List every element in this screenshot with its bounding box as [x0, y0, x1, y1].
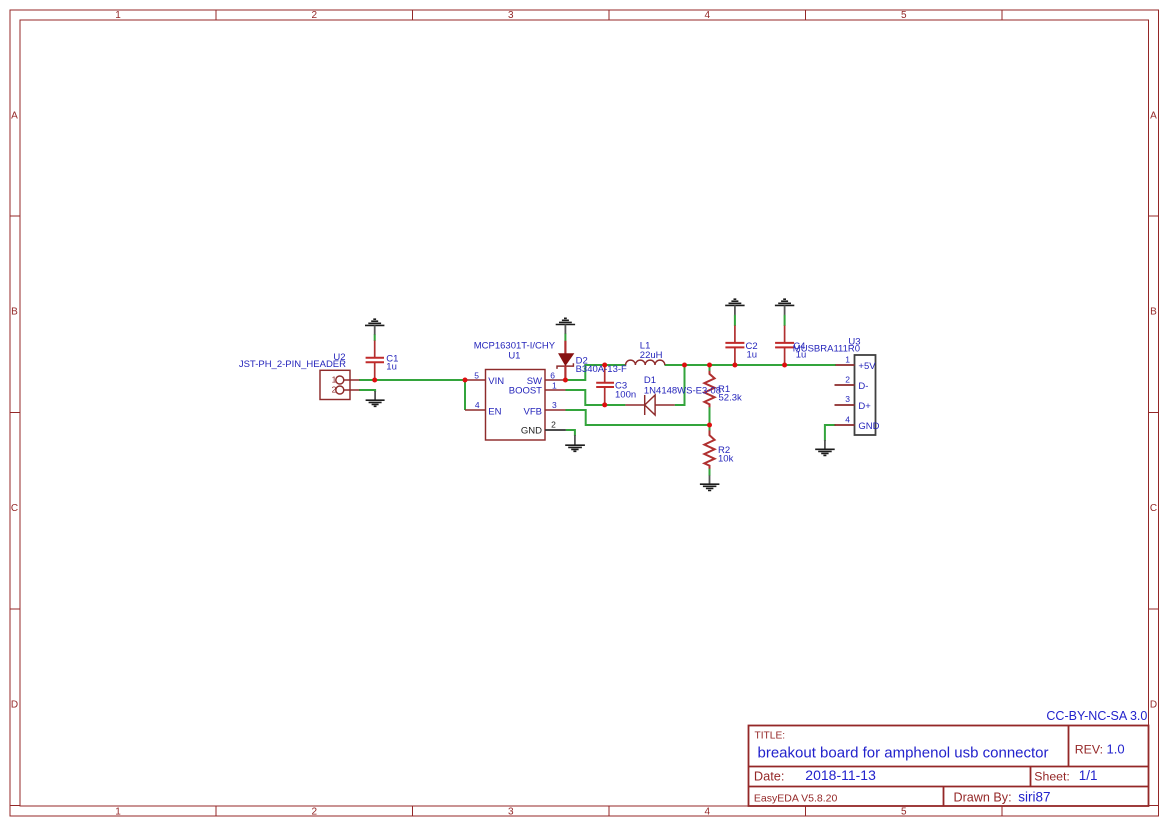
svg-text:Sheet:: Sheet:	[1034, 769, 1070, 783]
svg-text:C: C	[11, 503, 18, 514]
svg-text:BOOST: BOOST	[509, 385, 542, 396]
svg-text:2: 2	[312, 807, 318, 818]
svg-text:D: D	[1150, 700, 1157, 711]
svg-text:B: B	[1150, 307, 1157, 318]
svg-text:GND: GND	[858, 421, 879, 432]
svg-text:2018-11-13: 2018-11-13	[805, 767, 876, 783]
svg-text:D+: D+	[858, 401, 871, 412]
svg-text:2: 2	[332, 385, 337, 395]
svg-text:REV:: REV:	[1075, 743, 1103, 757]
svg-text:1N4148WS-E3-08: 1N4148WS-E3-08	[644, 386, 721, 397]
svg-text:JST-PH_2-PIN_HEADER: JST-PH_2-PIN_HEADER	[239, 359, 346, 370]
svg-text:A: A	[11, 110, 18, 121]
svg-text:4: 4	[845, 414, 850, 424]
svg-text:4: 4	[475, 400, 480, 410]
svg-text:3: 3	[508, 807, 514, 818]
svg-text:1u: 1u	[747, 350, 758, 361]
svg-text:MUSBRA111R0: MUSBRA111R0	[793, 344, 860, 355]
svg-text:C: C	[1150, 503, 1157, 514]
svg-text:B340A-13-F: B340A-13-F	[576, 364, 627, 375]
svg-text:1/1: 1/1	[1079, 768, 1098, 783]
svg-text:5: 5	[901, 10, 907, 21]
svg-text:siri87: siri87	[1018, 790, 1050, 805]
svg-text:EasyEDA V5.8.20: EasyEDA V5.8.20	[754, 792, 838, 804]
svg-text:10k: 10k	[718, 453, 734, 464]
svg-text:1: 1	[552, 380, 557, 390]
svg-text:VIN: VIN	[488, 376, 504, 387]
svg-text:A: A	[1150, 110, 1157, 121]
svg-text:EN: EN	[488, 406, 501, 417]
svg-text:Date:: Date:	[754, 768, 785, 783]
svg-text:U1: U1	[508, 351, 520, 362]
svg-text:Drawn By:: Drawn By:	[954, 791, 1012, 805]
svg-text:GND: GND	[521, 425, 542, 436]
svg-text:4: 4	[705, 10, 711, 21]
svg-text:D: D	[11, 700, 18, 711]
svg-text:1.0: 1.0	[1107, 742, 1125, 757]
svg-text:D-: D-	[858, 381, 868, 392]
svg-text:1: 1	[332, 375, 337, 385]
svg-text:1: 1	[115, 10, 121, 21]
svg-text:VFB: VFB	[524, 406, 542, 417]
svg-text:3: 3	[845, 394, 850, 404]
svg-text:2: 2	[312, 10, 318, 21]
svg-text:1u: 1u	[386, 361, 397, 372]
svg-text:1: 1	[115, 807, 121, 818]
svg-text:breakout board for amphenol us: breakout board for amphenol usb connecto…	[758, 744, 1049, 761]
svg-text:52.3k: 52.3k	[719, 393, 742, 404]
svg-text:D1: D1	[644, 375, 656, 386]
svg-text:5: 5	[474, 370, 479, 380]
svg-text:+5V: +5V	[858, 361, 876, 372]
svg-text:6: 6	[550, 370, 555, 380]
svg-text:TITLE:: TITLE:	[755, 731, 786, 742]
svg-text:5: 5	[901, 807, 907, 818]
svg-text:3: 3	[552, 400, 557, 410]
svg-text:2: 2	[551, 419, 556, 429]
svg-text:4: 4	[705, 807, 711, 818]
svg-text:3: 3	[508, 10, 514, 21]
svg-text:CC-BY-NC-SA 3.0: CC-BY-NC-SA 3.0	[1046, 709, 1147, 723]
svg-text:B: B	[11, 307, 18, 318]
svg-text:2: 2	[845, 374, 850, 384]
svg-text:22uH: 22uH	[640, 350, 663, 361]
svg-text:1: 1	[845, 355, 850, 365]
svg-text:100n: 100n	[615, 390, 636, 401]
